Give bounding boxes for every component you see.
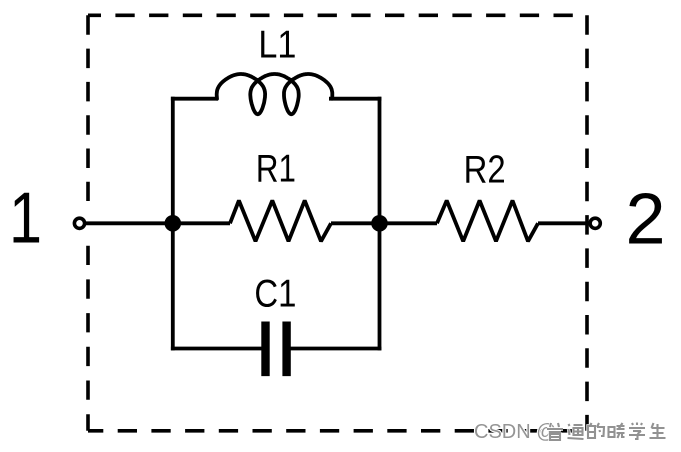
- wire: top branch left horizontal to L1: [171, 97, 218, 101]
- dashed boundary box left side upper segment: [86, 15, 90, 201]
- svg-text:CSDN @: CSDN @: [474, 421, 557, 443]
- wire: node A to R1 left lead: [173, 221, 230, 225]
- inductor L1 coil: [217, 74, 333, 114]
- svg-text:C1: C1: [254, 273, 296, 316]
- svg-text:R2: R2: [464, 148, 506, 191]
- dashed boundary box left side lower segment: [86, 246, 90, 431]
- svg-text:L1: L1: [258, 23, 296, 66]
- resistor R2 zigzag: [437, 201, 538, 242]
- dashed boundary box bottom side: [88, 429, 587, 433]
- wire: node B to R2 left lead: [380, 221, 438, 225]
- terminal 1 port circle: [74, 218, 84, 228]
- dashed boundary box top side: [88, 14, 587, 18]
- svg-text:2: 2: [625, 179, 665, 259]
- wire: terminal 1 to node A: [84, 221, 173, 225]
- node B junction dot: [371, 215, 388, 232]
- wire: bottom branch right horizontal from C1: [290, 347, 381, 351]
- capacitor C1 right plate: [282, 322, 290, 377]
- wire: left branch vertical (node A up to L1 / down to C1): [171, 97, 175, 351]
- watermark hanzi glyphs (approximated strokes): [547, 423, 666, 441]
- wire: R2 right lead to terminal 2: [538, 221, 591, 225]
- svg-text:1: 1: [9, 178, 42, 258]
- node A junction dot: [165, 215, 182, 232]
- wire: R1 right lead to node B: [331, 221, 380, 225]
- wire: bottom branch left horizontal to C1: [171, 347, 262, 351]
- resistor R1 zigzag: [230, 201, 331, 242]
- capacitor C1 left plate: [261, 322, 269, 377]
- terminal 2 port circle: [590, 218, 600, 228]
- wire: top branch right horizontal from L1: [329, 97, 381, 101]
- wire: right branch vertical (node B up to L1 / down to C1): [378, 97, 382, 351]
- dashed boundary box right side: [585, 15, 589, 431]
- svg-text:R1: R1: [256, 148, 296, 191]
